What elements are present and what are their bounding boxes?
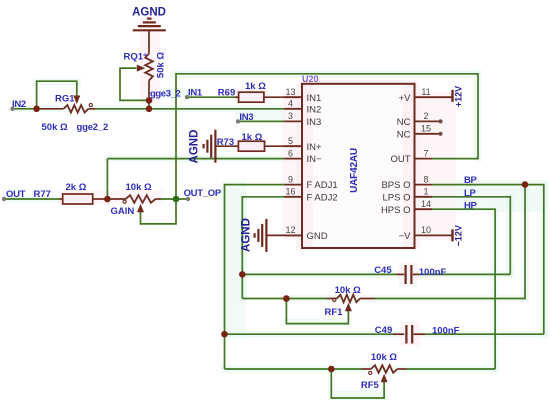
pin 2 (NC) (397, 111, 443, 128)
svg-text:+12V: +12V (454, 86, 464, 107)
svg-text:10: 10 (421, 225, 431, 235)
svg-text:IN−: IN− (307, 154, 323, 165)
power port AGND (at R73) (189, 130, 216, 164)
wire C49 to BP corner (432, 185, 544, 335)
svg-text:2: 2 (423, 111, 428, 121)
svg-text:AGND: AGND (241, 218, 253, 252)
svg-text:RG1: RG1 (55, 94, 75, 105)
wire IN3 port to pin 3 (238, 120, 285, 122)
svg-text:BP: BP (464, 175, 478, 186)
wire F ADJ1 to RF5 (225, 368, 332, 370)
svg-text:OUT: OUT (6, 189, 26, 200)
wire IN2 port to RG1 (13, 108, 37, 110)
svg-text:−V: −V (399, 231, 412, 242)
svg-text:100nF: 100nF (432, 326, 460, 337)
svg-text:GAIN: GAIN (111, 206, 135, 217)
pin 13 (IN1) (285, 87, 322, 104)
power port AGND (at GND pin 12) (241, 218, 303, 252)
junction (283, 295, 290, 302)
pin 4 (IN2) (285, 99, 322, 116)
wire F ADJ1 net down (225, 185, 285, 369)
svg-text:AGND: AGND (132, 7, 166, 19)
pin 16 (F ADJ2) (285, 187, 338, 204)
wire F ADJ2 to RF1 (242, 298, 327, 300)
svg-text:14: 14 (421, 199, 431, 209)
pin 12 (GND) (285, 225, 328, 242)
svg-text:gge3_2: gge3_2 (150, 89, 180, 100)
svg-text:IN2: IN2 (12, 99, 26, 110)
wire OUT feedback loop (176, 74, 478, 199)
junction (33, 106, 40, 113)
svg-text:LP: LP (464, 188, 477, 199)
svg-text:6: 6 (288, 148, 293, 158)
junction (328, 366, 335, 373)
svg-text:HPS O: HPS O (381, 205, 411, 216)
svg-text:1: 1 (423, 187, 428, 197)
port OUT (2, 189, 26, 201)
svg-text:1k Ω: 1k Ω (245, 81, 266, 92)
svg-text:gge2_2: gge2_2 (77, 122, 109, 133)
svg-text:1k Ω: 1k Ω (242, 132, 263, 143)
svg-text:U20: U20 (302, 74, 319, 84)
svg-text:IN1: IN1 (307, 93, 322, 104)
IC U20 UAF42AU body (302, 74, 415, 248)
wire GAIN to OUT_OP (161, 198, 188, 200)
svg-text:NC: NC (397, 117, 411, 128)
svg-text:GND: GND (307, 231, 328, 242)
pin 6 (IN−) (285, 148, 323, 165)
svg-text:C45: C45 (374, 265, 392, 276)
wire C45 to LP (432, 197, 510, 275)
pin 5 (IN+) (285, 136, 323, 153)
wire RF5 to HP (432, 209, 495, 369)
pin 15 (NC) (397, 124, 443, 141)
svg-text:BPS O: BPS O (381, 180, 410, 191)
junction OUT_OP (173, 196, 180, 203)
wire C45 row (242, 273, 510, 275)
pin 7 (OUT) (390, 148, 432, 165)
svg-text:RQ1°: RQ1° (124, 52, 148, 63)
svg-text:11: 11 (421, 87, 430, 97)
resistor R73 1k (215, 132, 302, 151)
wire RG1 wiper loop (37, 81, 77, 109)
wire RQ1 bottom to IN2 net (148, 100, 150, 108)
pin 14 (HPS O) (381, 199, 432, 216)
svg-text:RF5: RF5 (361, 380, 380, 391)
svg-text:−12V: −12V (454, 225, 464, 246)
junction (146, 106, 153, 113)
wire RF1 wiper loop (286, 299, 348, 324)
svg-text:+V: +V (399, 93, 412, 104)
wire F ADJ2 net down (242, 197, 284, 299)
svg-text:50k Ω: 50k Ω (42, 122, 68, 133)
svg-text:AGND: AGND (189, 130, 201, 164)
svg-text:3: 3 (288, 111, 293, 121)
svg-text:HP: HP (464, 200, 478, 211)
power port -12V (453, 225, 464, 246)
svg-text:10k Ω: 10k Ω (335, 285, 361, 296)
svg-text:R69: R69 (218, 88, 235, 99)
svg-text:10k Ω: 10k Ω (126, 182, 152, 193)
pin 3 (IN3) (285, 111, 322, 128)
svg-text:5: 5 (288, 136, 293, 146)
wire OUT port to R77 (4, 198, 60, 200)
svg-text:10k Ω: 10k Ω (371, 352, 397, 363)
power port AGND (top) (132, 7, 166, 31)
resistor GAIN potentiometer 10k (107, 182, 161, 217)
svg-text:IN+: IN+ (307, 142, 323, 153)
wire BP junction down to RF1 (375, 185, 525, 299)
wire GAIN wiper loop (141, 199, 177, 224)
pin 1 (LPS O) (383, 187, 433, 204)
svg-text:2k Ω: 2k Ω (66, 182, 87, 193)
svg-text:LPS O: LPS O (383, 192, 411, 203)
svg-text:4: 4 (288, 99, 293, 109)
svg-text:RF1: RF1 (325, 307, 344, 318)
svg-text:15: 15 (421, 124, 431, 134)
svg-text:13: 13 (285, 87, 295, 97)
svg-text:OUT: OUT (390, 154, 410, 165)
svg-text:R77: R77 (34, 189, 51, 200)
pin 9 (F ADJ1) (285, 174, 338, 191)
resistor RG1 potentiometer 50k (37, 94, 108, 134)
junction (239, 271, 246, 278)
port IN1 (185, 88, 203, 100)
wire RQ1 wiper (120, 68, 149, 100)
svg-text:50k Ω: 50k Ω (156, 52, 167, 78)
svg-text:OUT_OP: OUT_OP (184, 188, 222, 199)
wire IN- net (107, 158, 284, 160)
svg-text:R73: R73 (217, 137, 234, 148)
pin 11 (+V) (399, 87, 453, 104)
junction (146, 97, 153, 104)
pin 8 (BPS O) (381, 174, 432, 191)
svg-text:IN3: IN3 (239, 112, 253, 123)
svg-text:12: 12 (285, 225, 295, 235)
resistor R77 2k (34, 182, 108, 204)
svg-text:9: 9 (288, 174, 293, 184)
port IN3 (236, 112, 254, 124)
resistor RF5 potentiometer 10k (361, 352, 407, 391)
svg-text:UAF42AU: UAF42AU (349, 148, 360, 193)
svg-text:F ADJ1: F ADJ1 (307, 180, 338, 191)
power port +12V (453, 86, 464, 107)
wire RG1 to gge3_2 junction (95, 108, 285, 110)
wire RF5 leads (331, 368, 495, 370)
svg-text:IN1: IN1 (188, 88, 203, 99)
svg-text:16: 16 (285, 187, 295, 197)
svg-text:7: 7 (423, 148, 428, 158)
capacitor C49 100nF (375, 325, 460, 344)
svg-text:IN2: IN2 (307, 104, 322, 115)
junction (104, 196, 111, 203)
svg-text:IN3: IN3 (307, 117, 322, 128)
svg-text:F ADJ2: F ADJ2 (307, 192, 338, 203)
svg-text:8: 8 (423, 174, 428, 184)
resistor R69 1k (218, 81, 302, 102)
svg-text:NC: NC (397, 129, 411, 140)
wire IN- down to R77 junction (106, 159, 108, 199)
resistor RF1 potentiometer 10k (325, 285, 376, 318)
resistor RQ1 potentiometer 50k (124, 31, 167, 101)
capacitor C45 100nF (374, 265, 446, 284)
svg-text:C49: C49 (375, 325, 392, 336)
pin 10 (−V) (399, 225, 453, 242)
wire IN1 port to R69 (187, 96, 235, 98)
port IN2 (10, 99, 26, 111)
port OUT_OP (184, 188, 222, 201)
junction (522, 181, 529, 188)
wire C49 row (225, 333, 544, 335)
wire RF5 wiper loop (331, 369, 384, 398)
svg-text:100nF: 100nF (419, 267, 447, 278)
junction (221, 331, 228, 338)
